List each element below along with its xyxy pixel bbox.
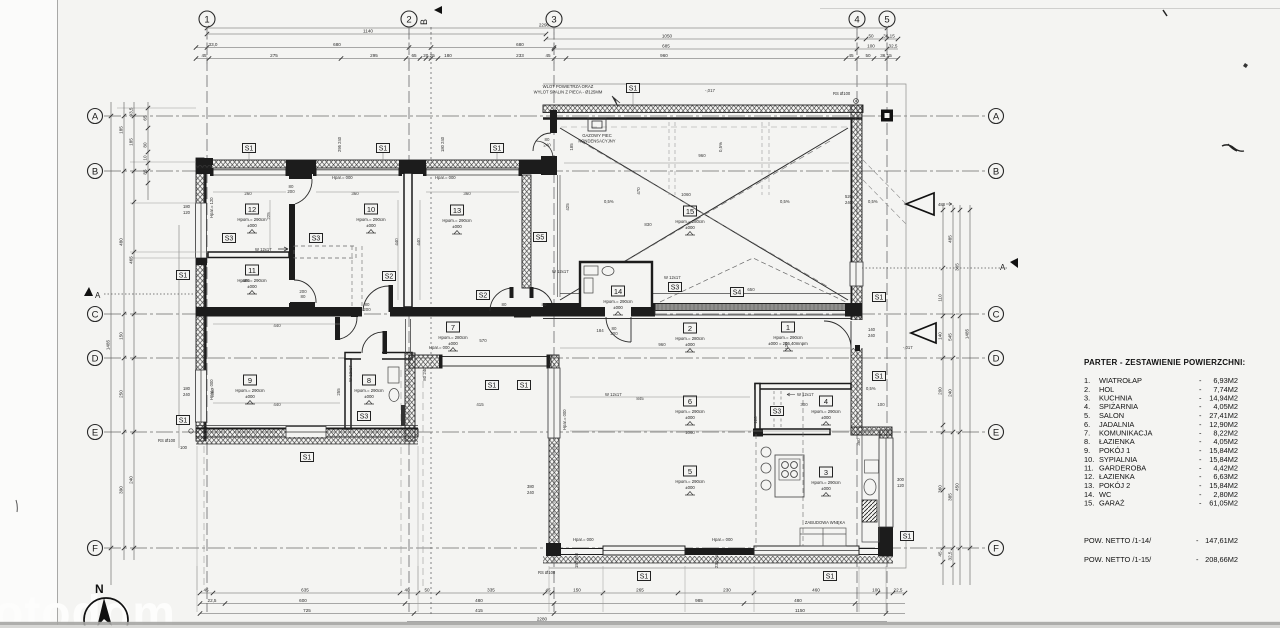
grid bubble 3 <box>546 11 562 27</box>
svg-text:240: 240 <box>845 200 853 205</box>
svg-text:8,22M2: 8,22M2 <box>1213 429 1238 438</box>
garage lintel dashed line <box>561 126 848 128</box>
svg-text:Hpom.= 290cm: Hpom.= 290cm <box>675 479 705 484</box>
svg-text:180 240: 180 240 <box>440 136 445 152</box>
svg-text:255: 255 <box>336 388 341 396</box>
svg-text:2: 2 <box>406 15 411 26</box>
room 8 label <box>354 375 384 404</box>
svg-text:W 12x17: W 12x17 <box>605 392 622 397</box>
wall corner salon SW <box>546 543 561 556</box>
exterior wall north hatch <box>196 160 555 168</box>
svg-text:Hpar.= 000: Hpar.= 000 <box>429 345 450 350</box>
svg-text:365: 365 <box>955 263 960 271</box>
door room 8 <box>361 331 387 360</box>
svg-text:180: 180 <box>444 53 452 58</box>
svg-text:±000: ±000 <box>821 415 831 420</box>
svg-text:22,5: 22,5 <box>894 587 903 592</box>
svg-text:S1: S1 <box>179 418 188 425</box>
label S1 <box>518 381 531 390</box>
kitchen fridge hatch <box>862 500 877 522</box>
svg-text:50: 50 <box>865 53 871 58</box>
svg-text:230 240: 230 240 <box>714 552 719 568</box>
double door S5 left <box>490 287 514 311</box>
spine wall cap S5 <box>514 311 531 318</box>
garage west face lines <box>558 175 561 297</box>
svg-text:233: 233 <box>516 53 524 58</box>
svg-text:40: 40 <box>404 587 410 592</box>
svg-text:±000: ±000 <box>685 342 695 347</box>
svg-text:0,5%: 0,5% <box>866 386 876 391</box>
svg-text:6,93M2: 6,93M2 <box>1213 376 1238 385</box>
svg-text:685: 685 <box>662 43 670 48</box>
svg-text:1.: 1. <box>1084 376 1090 385</box>
svg-text:A: A <box>1000 263 1006 272</box>
exterior wall kitchen east <box>880 430 892 556</box>
window S1 salon south 2 <box>754 546 859 555</box>
svg-text:±000: ±000 <box>247 284 257 289</box>
svg-text:0,5%: 0,5% <box>718 142 723 152</box>
room 4 label <box>811 396 841 425</box>
wall corner salon SE <box>878 527 893 556</box>
svg-text:465: 465 <box>129 256 134 264</box>
grid bubble 1 <box>199 11 215 27</box>
wall salon south lines <box>549 549 886 555</box>
label S1 <box>824 572 837 581</box>
spine wall east segment <box>413 307 543 317</box>
exterior wall terrace north <box>409 355 551 368</box>
svg-text:13: 13 <box>453 206 461 215</box>
window kitchen east <box>879 438 893 527</box>
svg-text:15.: 15. <box>1084 499 1094 508</box>
hob burners <box>779 459 800 480</box>
label S1 <box>301 453 314 462</box>
svg-text:50: 50 <box>868 33 874 38</box>
svg-text:ŁAZIENKA: ŁAZIENKA <box>1099 437 1135 446</box>
grid bubble 4 <box>849 11 865 27</box>
svg-text:335: 335 <box>487 587 495 592</box>
grid bubble B left <box>88 164 103 179</box>
svg-text:S1: S1 <box>179 273 188 280</box>
svg-text:D: D <box>993 354 1000 365</box>
svg-text:240: 240 <box>129 476 134 484</box>
svg-text:32,5: 32,5 <box>889 43 898 48</box>
svg-text:WC: WC <box>1099 490 1112 499</box>
svg-text:240: 240 <box>868 333 876 338</box>
scan scribble <box>1222 144 1244 151</box>
svg-text:9: 9 <box>248 376 252 385</box>
svg-text:650: 650 <box>747 287 755 292</box>
dimension chain right 3 <box>955 205 963 585</box>
svg-text:80 240: 80 240 <box>422 367 427 381</box>
svg-text:S1: S1 <box>493 146 502 153</box>
paper fold edge line <box>57 0 59 628</box>
svg-text:SYPIALNIA: SYPIALNIA <box>1099 455 1137 464</box>
dimension chain bottom 3 <box>198 608 905 616</box>
svg-text:15,84M2: 15,84M2 <box>1209 455 1238 464</box>
grid row E <box>104 431 986 433</box>
grid bubble F right <box>989 541 1004 556</box>
svg-text:65: 65 <box>143 115 148 121</box>
door leaf room 12 <box>289 174 312 179</box>
label S4 <box>731 288 744 297</box>
svg-text:100: 100 <box>180 445 188 450</box>
dimension chain top 4 <box>194 53 900 61</box>
svg-text:275: 275 <box>270 53 278 58</box>
svg-text:1050: 1050 <box>662 33 673 38</box>
svg-text:200: 200 <box>363 307 371 312</box>
svg-text:S1: S1 <box>520 383 529 390</box>
window S1 salon south 1 <box>603 546 685 555</box>
svg-text:545: 545 <box>948 333 953 341</box>
left white margin strip <box>0 0 57 628</box>
svg-text:425: 425 <box>565 203 570 211</box>
eaves line left wing <box>178 225 180 448</box>
bottom scan edge band <box>0 622 1280 625</box>
exterior wall salon west <box>549 355 559 552</box>
entrance door <box>824 320 863 348</box>
svg-text:B: B <box>993 167 999 178</box>
window sill end a <box>196 258 207 265</box>
window S1 north room 13 <box>423 168 522 176</box>
door leaf room 10 entry <box>389 285 394 312</box>
svg-text:S1: S1 <box>245 146 254 153</box>
label S2 <box>477 291 490 300</box>
svg-text:415: 415 <box>476 402 484 407</box>
svg-text:45: 45 <box>545 587 551 592</box>
rs dot left <box>189 429 193 433</box>
svg-text:3: 3 <box>551 15 556 26</box>
svg-text:960: 960 <box>698 153 706 158</box>
svg-text:RS Ø100: RS Ø100 <box>833 91 851 96</box>
svg-text:1: 1 <box>786 323 790 332</box>
wall cap room 9 door <box>351 310 358 317</box>
dimension chain left 1 <box>119 102 127 560</box>
window west room 12 <box>196 203 207 258</box>
svg-text:S3: S3 <box>773 409 782 416</box>
kitchen sink <box>864 479 876 495</box>
grid column 2 <box>408 27 410 612</box>
bottom total dim <box>407 617 887 622</box>
svg-text:S3: S3 <box>671 285 680 292</box>
svg-text:11: 11 <box>248 266 256 275</box>
eaves line right block <box>543 84 906 568</box>
svg-text:8.: 8. <box>1084 437 1090 446</box>
svg-text:150: 150 <box>573 587 581 592</box>
svg-text:Hpom.= 290cm: Hpom.= 290cm <box>773 335 803 340</box>
room 13 label <box>442 205 472 234</box>
svg-text:385: 385 <box>948 493 953 501</box>
dimension chain left 3 <box>143 102 151 200</box>
svg-text:D: D <box>92 354 99 365</box>
exterior wall left wing south hatch <box>196 429 418 437</box>
svg-text:360: 360 <box>938 485 943 493</box>
svg-text:100: 100 <box>872 587 880 592</box>
wall pier north 3 <box>519 160 543 174</box>
grid bubble C left <box>88 307 103 322</box>
svg-text:Hpar.= 000: Hpar.= 000 <box>435 175 456 180</box>
corridor niche double line <box>406 319 411 354</box>
dashed zone line spizarnia <box>755 434 757 548</box>
label S2 <box>383 272 396 281</box>
svg-text:W 12x17: W 12x17 <box>255 247 272 252</box>
svg-text:W 12x17: W 12x17 <box>348 365 353 382</box>
door arc room 11 <box>294 280 316 303</box>
svg-text:45: 45 <box>203 587 209 592</box>
svg-text:S1: S1 <box>875 374 884 381</box>
svg-text:Hpom.= 290cm: Hpom.= 290cm <box>356 217 386 222</box>
dimension chain top 3a <box>194 42 556 50</box>
svg-text:830: 830 <box>644 222 652 227</box>
svg-text:WYLOT SPALIN Z PIECA - Ø125MM: WYLOT SPALIN Z PIECA - Ø125MM <box>534 90 603 95</box>
svg-text:ZABUDOWA WNĘKA: ZABUDOWA WNĘKA <box>805 520 846 525</box>
svg-text:120: 120 <box>753 416 758 424</box>
svg-text:32,5: 32,5 <box>948 551 953 560</box>
wall spizarnia west <box>755 384 760 435</box>
exterior wall garage east hatch <box>851 105 862 320</box>
svg-text:POW. NETTO /1-14/: POW. NETTO /1-14/ <box>1084 536 1152 545</box>
label S1 <box>243 144 256 153</box>
wall spizarnia north <box>755 384 851 390</box>
svg-text:A: A <box>92 112 99 123</box>
label S1 <box>873 372 886 381</box>
grid bubble A left <box>88 109 103 124</box>
svg-text:1150: 1150 <box>795 608 805 613</box>
svg-text:295 240: 295 240 <box>337 136 342 152</box>
garage floor edge line <box>560 293 851 295</box>
w12x17 arrow <box>278 247 288 251</box>
bar stools <box>761 447 771 490</box>
svg-text:E: E <box>92 428 98 439</box>
garage cross bracing X <box>560 128 848 300</box>
svg-text:±000: ±000 <box>364 394 374 399</box>
svg-text:Hpom.= 290cm: Hpom.= 290cm <box>442 218 472 223</box>
door arc room 12 <box>295 179 312 204</box>
svg-text:485: 485 <box>948 235 953 243</box>
label S3 <box>358 412 371 421</box>
svg-text:Hpom.= 290cm: Hpom.= 290cm <box>811 409 841 414</box>
svg-text:120: 120 <box>897 483 905 488</box>
svg-text:140: 140 <box>868 327 876 332</box>
svg-text:Hpar.= 000: Hpar.= 000 <box>209 379 214 400</box>
svg-text:Hpar.= 000: Hpar.= 000 <box>573 537 594 542</box>
svg-text:S1: S1 <box>303 455 312 462</box>
svg-text:147,61M2: 147,61M2 <box>1205 536 1238 545</box>
north arrow <box>84 582 128 628</box>
svg-text:300: 300 <box>897 477 905 482</box>
svg-text:200: 200 <box>299 289 307 294</box>
svg-text:±000: ±000 <box>366 223 376 228</box>
window west room 9 <box>196 370 207 422</box>
dimension chain top 1140 <box>205 28 548 36</box>
svg-text:W 12x17: W 12x17 <box>664 275 681 280</box>
interior wall rooms 12-10 <box>289 204 295 280</box>
svg-text:POW. NETTO /1-15/: POW. NETTO /1-15/ <box>1084 555 1152 564</box>
dimension chain bottom 1 <box>198 587 907 595</box>
double door S5 right <box>530 287 554 310</box>
svg-text:±000: ±000 <box>685 415 695 420</box>
svg-text:S1: S1 <box>640 574 649 581</box>
spizarnia shelf dashes <box>774 391 781 429</box>
svg-text:635: 635 <box>301 587 309 592</box>
svg-text:460: 460 <box>812 587 820 592</box>
S1 leader lines <box>249 93 633 163</box>
svg-text:GARDEROBA: GARDEROBA <box>1099 464 1146 473</box>
svg-text:4,05M2: 4,05M2 <box>1213 402 1238 411</box>
hall north inner line <box>543 318 851 320</box>
wall stub room 11 south <box>289 303 295 307</box>
dashed zone line kitchen <box>802 392 804 546</box>
svg-text:SALON: SALON <box>1099 411 1124 420</box>
room 5 label <box>675 466 705 495</box>
bathroom basin <box>388 367 399 383</box>
svg-text:WIATROŁAP: WIATROŁAP <box>1099 376 1142 385</box>
wardrobe zabudowa <box>800 528 846 546</box>
exterior wall garage north hatch <box>543 105 863 113</box>
svg-text:12: 12 <box>248 205 256 214</box>
exterior wall entrance east <box>851 316 862 435</box>
svg-text:1: 1 <box>204 15 209 26</box>
svg-text:100: 100 <box>867 43 875 48</box>
svg-text:185: 185 <box>569 143 574 151</box>
svg-text:0,5%: 0,5% <box>780 199 790 204</box>
interior wall rooms 10-13 <box>404 173 412 307</box>
svg-text:HOL: HOL <box>1099 385 1114 394</box>
label S5 <box>534 233 547 242</box>
svg-text:S1: S1 <box>629 86 638 93</box>
hall north wall east cap <box>845 303 862 317</box>
room 14 label <box>603 286 633 315</box>
dimension chain right total <box>965 205 973 585</box>
top scan edge faint line <box>820 8 1280 10</box>
svg-text:Hpom.= 280cm: Hpom.= 280cm <box>675 219 705 224</box>
extension lines west <box>117 108 208 258</box>
svg-text:±000: ±000 <box>821 486 831 491</box>
dashed duct lines <box>352 246 362 306</box>
svg-text:12.: 12. <box>1084 472 1094 481</box>
svg-text:GAZOWY PIEC: GAZOWY PIEC <box>582 133 611 138</box>
svg-text:960: 960 <box>660 53 668 58</box>
svg-text:1485: 1485 <box>965 328 970 339</box>
room 15 label <box>675 206 705 235</box>
scan speck 1 <box>1163 10 1167 16</box>
svg-text:360: 360 <box>856 438 861 446</box>
scan speck left <box>16 500 17 512</box>
svg-text:380: 380 <box>527 484 535 489</box>
wall top edge a <box>196 158 213 165</box>
svg-text:W 12x17: W 12x17 <box>797 392 814 397</box>
svg-text:725: 725 <box>303 608 311 613</box>
label S1 <box>901 532 914 541</box>
section mark A left <box>84 287 101 300</box>
label S1 <box>377 144 390 153</box>
grid bubble D right <box>989 351 1004 366</box>
svg-text:240: 240 <box>948 389 953 397</box>
grid row A <box>104 115 986 117</box>
svg-text:Hpom.= 290cm: Hpom.= 290cm <box>237 278 267 283</box>
svg-text:85: 85 <box>143 169 148 175</box>
wall connector corner <box>541 156 557 175</box>
svg-text:Hpom.= 290cm: Hpom.= 290cm <box>675 409 705 414</box>
grid row F <box>104 547 986 549</box>
svg-text:S2: S2 <box>385 274 394 281</box>
svg-text:±000: ±000 <box>685 225 695 230</box>
svg-text:14: 14 <box>614 287 622 296</box>
svg-text:1140: 1140 <box>363 28 373 33</box>
svg-text:S1: S1 <box>488 383 497 390</box>
section mark B top <box>419 6 442 25</box>
svg-text:80: 80 <box>301 294 306 299</box>
svg-text:680: 680 <box>516 42 524 47</box>
svg-text:80: 80 <box>542 302 547 307</box>
dimension chain left 2 <box>129 102 137 560</box>
roof dashed diagonals NE <box>863 160 906 224</box>
svg-text:Hpom.= 290cm: Hpom.= 290cm <box>603 299 633 304</box>
svg-text:10: 10 <box>367 205 375 214</box>
svg-text:93,5: 93,5 <box>129 107 134 116</box>
svg-text:5: 5 <box>688 467 692 476</box>
svg-text:184: 184 <box>596 328 604 333</box>
svg-text:15,84M2: 15,84M2 <box>1209 481 1238 490</box>
grid bubble A right <box>989 109 1004 124</box>
garage north face line <box>543 117 862 119</box>
svg-text:±000: ±000 <box>247 223 257 228</box>
svg-text:488: 488 <box>938 202 946 207</box>
wall west face line <box>205 165 207 441</box>
svg-text:10.: 10. <box>1084 455 1094 464</box>
room 11 label <box>237 265 267 294</box>
svg-text:±000: ±000 <box>613 305 623 310</box>
svg-text:7.: 7. <box>1084 429 1090 438</box>
svg-text:14.: 14. <box>1084 490 1094 499</box>
door leaf room 11 <box>290 302 315 307</box>
terrace dashed edges <box>204 370 423 588</box>
svg-text:S1: S1 <box>826 574 835 581</box>
garage gate sill band <box>655 304 848 316</box>
svg-text:6: 6 <box>688 397 692 406</box>
svg-text:RS Ø100: RS Ø100 <box>538 570 556 575</box>
grid bubble E left <box>88 425 103 440</box>
svg-text:JADALNIA: JADALNIA <box>1099 420 1134 429</box>
svg-text:240: 240 <box>527 490 535 495</box>
room 2 label <box>675 323 705 352</box>
room 10 label <box>356 204 386 233</box>
svg-text:8: 8 <box>367 376 371 385</box>
svg-text:200: 200 <box>938 387 943 395</box>
wall corner spizarnia <box>753 429 763 437</box>
svg-text:F: F <box>993 544 999 555</box>
svg-text:Hpar.= 000: Hpar.= 000 <box>562 409 567 430</box>
grid column 1 <box>206 27 208 612</box>
svg-text:W 12x17: W 12x17 <box>552 269 569 274</box>
svg-text:185: 185 <box>119 126 124 134</box>
svg-text:250: 250 <box>119 390 124 398</box>
exterior wall west hatch <box>196 158 204 441</box>
svg-text:9.: 9. <box>1084 446 1090 455</box>
kitchen island <box>775 455 804 497</box>
room 6 label <box>675 396 705 425</box>
svg-text:12,90M2: 12,90M2 <box>1209 420 1238 429</box>
svg-text:SPIŻARNIA: SPIŻARNIA <box>1099 402 1138 411</box>
svg-text:-,017: -,017 <box>903 345 913 350</box>
svg-text:230: 230 <box>723 587 731 592</box>
svg-text:680: 680 <box>333 42 341 47</box>
label S1 <box>486 381 499 390</box>
interior wall rooms 12-11 <box>208 252 289 258</box>
wall spizarnia south <box>755 429 830 435</box>
spine wall west segment <box>196 307 362 317</box>
left wing south face line <box>196 428 418 430</box>
svg-text:Hpar.= 000: Hpar.= 000 <box>332 175 353 180</box>
